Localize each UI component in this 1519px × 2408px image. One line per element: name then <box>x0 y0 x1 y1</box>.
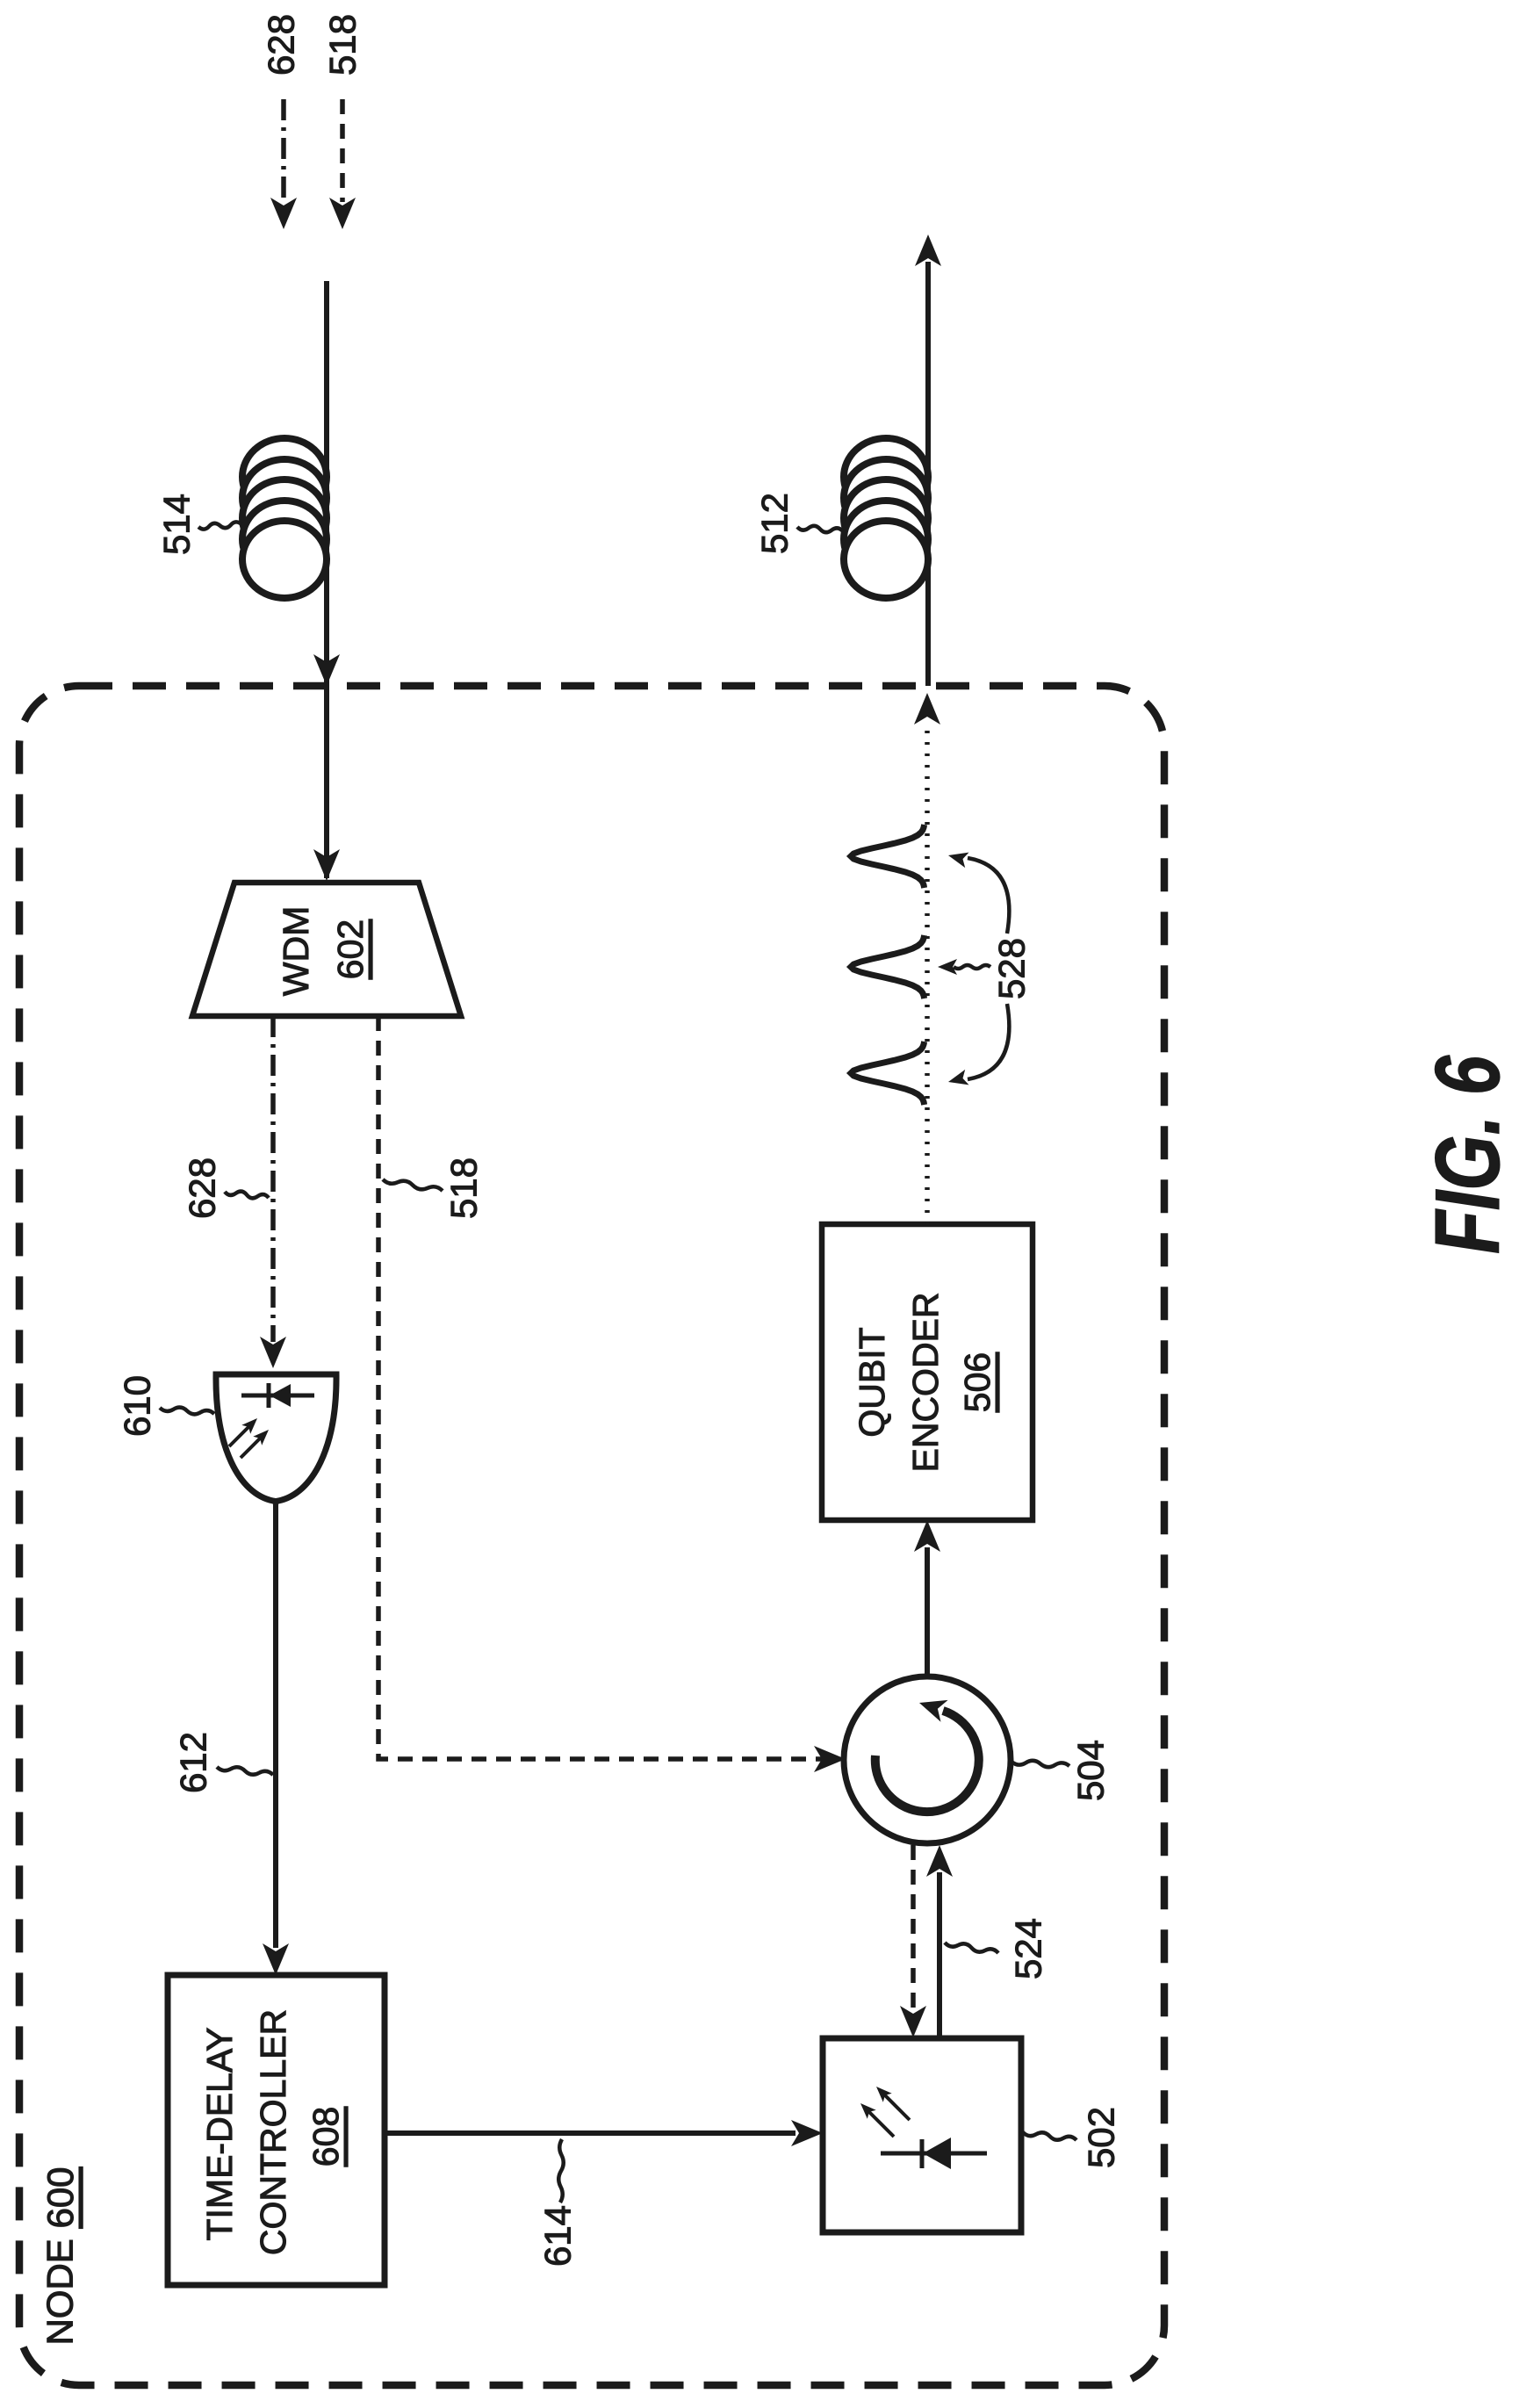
wire: dashed arrow 518 into fiber <box>340 99 345 202</box>
svg-text:524: 524 <box>1008 1918 1049 1979</box>
svg-text:610: 610 <box>117 1375 158 1437</box>
qubit encoder 506 box <box>822 1224 1033 1520</box>
pulse 3 (528) <box>851 1042 925 1105</box>
wire pair 524: circulator <-> detector 502 <box>911 1845 916 2011</box>
svg-text:612: 612 <box>173 1732 214 1793</box>
wire: dashed line 518 from WDM to circulator <box>378 1016 836 1759</box>
wire: dash-dot line 628 from WDM to detector 610 <box>270 1016 276 1342</box>
wire: circulator to qubit encoder <box>925 1547 930 1676</box>
svg-text:628: 628 <box>261 14 302 76</box>
svg-text:TIME-DELAY: TIME-DELAY <box>199 2028 240 2241</box>
svg-text:512: 512 <box>754 493 795 554</box>
wire 612: detector 610 to time-delay controller <box>273 1502 278 1948</box>
svg-text:502: 502 <box>1081 2107 1122 2168</box>
fiber coil 512 <box>844 438 928 515</box>
svg-text:FIG. 6: FIG. 6 <box>1417 1055 1519 1254</box>
svg-text:QUBIT: QUBIT <box>852 1327 892 1437</box>
svg-text:506: 506 <box>957 1352 997 1412</box>
svg-text:504: 504 <box>1070 1740 1112 1801</box>
wire 614: controller to detector 502 <box>385 2130 795 2136</box>
svg-text:628: 628 <box>182 1157 223 1219</box>
time-delay controller 608 box <box>168 1975 385 2285</box>
wire: input fiber line into node <box>324 281 329 878</box>
svg-text:CONTROLLER: CONTROLLER <box>253 2009 293 2255</box>
wire: dash-dot arrow 628 into fiber <box>281 99 286 202</box>
node 600 dashed boundary <box>19 686 1164 2385</box>
circulator 504 <box>844 1676 1011 1843</box>
pulse 1 (528) <box>851 825 925 888</box>
detector 502 box <box>823 2038 1021 2232</box>
WDM 602 trapezoid <box>192 883 461 1016</box>
svg-text:518: 518 <box>322 14 364 76</box>
pulse 2 (528) <box>851 935 925 999</box>
wire: dotted qubit line from encoder up through node boundary <box>925 729 930 1224</box>
wire: output fiber line with arrow <box>925 262 931 686</box>
detector 610 (bullet shape) <box>216 1374 336 1502</box>
photodiode symbol inside 610 <box>241 1394 314 1398</box>
svg-text:ENCODER: ENCODER <box>905 1292 946 1472</box>
svg-text:608: 608 <box>306 2107 346 2166</box>
svg-text:WDM: WDM <box>276 906 316 996</box>
svg-text:518: 518 <box>443 1157 485 1219</box>
photodiode symbol inside 502 <box>881 2152 987 2156</box>
fiber coil 514 <box>242 438 327 515</box>
svg-text:514: 514 <box>156 494 198 555</box>
svg-text:528: 528 <box>991 938 1033 999</box>
svg-text:602: 602 <box>330 919 371 979</box>
svg-text:NODE 600: NODE 600 <box>40 2166 81 2345</box>
svg-text:614: 614 <box>537 2205 579 2267</box>
